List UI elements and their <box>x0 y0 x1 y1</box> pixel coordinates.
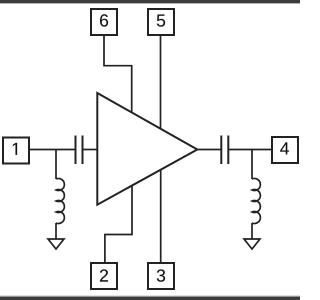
wire: L2 to ground <box>251 223 253 239</box>
inductor L2 (output shunt coil) <box>252 179 260 224</box>
wire: junction drop to L1 <box>55 150 57 180</box>
top border band <box>0 0 300 3</box>
wire: box1 to capacitor C1 <box>30 149 76 151</box>
ground (right, open arrow) <box>244 239 260 249</box>
bottom border band <box>0 297 300 300</box>
wire: C1 to amplifier input <box>83 149 98 151</box>
terminal box pin 4 <box>272 137 298 163</box>
inductor L1 (input shunt coil) <box>56 179 64 224</box>
wire: amplifier bottom edge down-left-down to pin 2 box <box>105 185 132 262</box>
terminal box pin 6 <box>91 9 117 35</box>
capacitor C1 (input coupling) <box>75 136 77 165</box>
wire: pin 6 box down-right-down to amplifier top edge <box>104 36 132 113</box>
wire: amplifier output to capacitor C2 <box>197 149 221 151</box>
terminal box pin 1 <box>3 138 29 164</box>
terminal box pin 3 <box>148 263 174 289</box>
ground (left, open arrow) <box>48 239 64 249</box>
op-amp U1 (amplifier triangle) <box>97 93 197 205</box>
capacitor C2 (output coupling) <box>220 136 222 165</box>
wire: junction drop to L2 <box>251 150 253 180</box>
terminal box pin 5 <box>148 9 174 35</box>
wire: C2 to box4 <box>228 149 271 151</box>
terminal box pin 2 <box>91 263 117 289</box>
wire: pin 3 box straight up to amplifier bottom edge <box>160 169 162 262</box>
wire: L1 to ground <box>55 223 57 239</box>
wire: pin 5 box straight down to amplifier top edge <box>160 36 162 129</box>
